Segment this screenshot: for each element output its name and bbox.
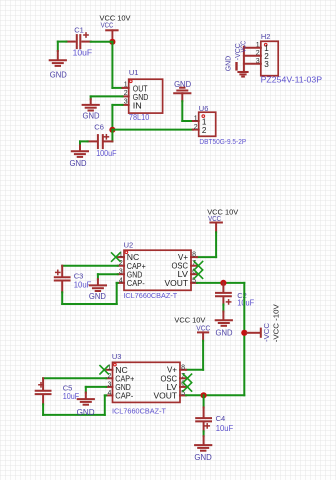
svg-text:U6: U6 xyxy=(199,104,209,113)
net label GND (H2 pin 3, rotated) xyxy=(224,55,233,71)
no-connect X U2 pin 6 xyxy=(194,270,202,278)
wire H2 vertical bus xyxy=(243,47,245,71)
svg-text:10uF: 10uF xyxy=(216,424,234,433)
svg-text:1: 1 xyxy=(124,82,128,89)
wire input node to U6 pin 2 xyxy=(112,129,192,131)
net label VCC (H2 pin 1, rotated) xyxy=(239,40,248,52)
IC U2 ICL7660CBAZ-T xyxy=(118,240,197,300)
svg-text:VOUT: VOUT xyxy=(154,392,178,401)
svg-text:-VCC -10V: -VCC -10V xyxy=(272,304,281,342)
svg-text:C3: C3 xyxy=(74,272,84,281)
ground GND (U3 pin 3) xyxy=(77,393,95,417)
svg-text:GND: GND xyxy=(77,408,95,417)
ground GND (C2) xyxy=(216,312,233,338)
ground GND (U2 pin 3) xyxy=(89,279,106,301)
svg-text:GND: GND xyxy=(216,328,233,337)
svg-text:DBT50G-9.5-2P: DBT50G-9.5-2P xyxy=(199,137,246,146)
svg-text:2: 2 xyxy=(124,90,128,97)
junction dot U3 VOUT / C4 xyxy=(201,392,207,398)
svg-text:2: 2 xyxy=(202,126,207,135)
svg-text:GND: GND xyxy=(127,270,143,279)
junction dot input node (C6/U6/U1.IN) xyxy=(109,127,115,133)
net label -VCC (H2 pin 2, rotated) xyxy=(233,43,242,61)
regulator U1 78L10 xyxy=(123,68,163,122)
svg-text:VCC: VCC xyxy=(101,23,114,30)
svg-text:GND: GND xyxy=(194,453,212,462)
wire U3 GND pin 3 xyxy=(86,387,106,393)
svg-text:C1: C1 xyxy=(74,25,84,34)
power flag VCC (above U3) xyxy=(174,316,210,341)
ground GND (C1 negative) xyxy=(50,51,67,80)
svg-text:VCC 10V: VCC 10V xyxy=(207,207,238,216)
wire U2 GND pin 3 xyxy=(98,274,118,279)
capacitor C2 10uF (vertical, polarized) xyxy=(216,283,254,308)
svg-text:C6: C6 xyxy=(94,122,104,131)
svg-text:GND: GND xyxy=(89,292,106,301)
no-connect X U3 pin 6 xyxy=(183,383,191,391)
no-connect X U3 pin 1 xyxy=(100,366,108,374)
svg-text:VCC 10V: VCC 10V xyxy=(174,316,205,325)
wire U3 CAP+ to C5 xyxy=(43,377,106,379)
svg-text:3: 3 xyxy=(264,60,269,69)
svg-text:78L10: 78L10 xyxy=(129,113,150,122)
svg-text:GND: GND xyxy=(115,383,131,392)
svg-text:LV: LV xyxy=(178,270,189,279)
wire VCC to U2 pin 8 xyxy=(197,232,216,257)
wire C6 left to GND corner xyxy=(80,141,88,145)
junction dot VCC/C1 node xyxy=(109,39,115,45)
wire C5 bottom to U3 CAP- xyxy=(43,395,106,415)
wire U2 VOUT to -VCC rail xyxy=(197,282,244,284)
svg-text:CAP-: CAP- xyxy=(115,392,133,401)
junction dot -VCC flag xyxy=(241,330,247,336)
wire VCC to U3 pin 8 xyxy=(186,341,203,370)
svg-text:PZ254V-11-03P: PZ254V-11-03P xyxy=(261,75,323,84)
svg-text:2: 2 xyxy=(194,124,198,131)
wire U3 VOUT to -VCC rail xyxy=(186,394,244,396)
svg-text:8: 8 xyxy=(192,252,196,259)
wire H2 pin 3 xyxy=(244,63,261,65)
svg-text:GND: GND xyxy=(50,71,67,80)
ground GND flipped (above U6 pin 1) xyxy=(174,80,191,101)
wire VCC junction to C1 right xyxy=(91,41,113,43)
svg-text:CAP-: CAP- xyxy=(127,279,145,288)
connector U6 DBT50G-9.5-2P xyxy=(193,104,246,146)
capacitor C4 10uF (vertical, polarized) xyxy=(196,395,233,433)
power flag -VCC (net -VCC -10V, rotated) xyxy=(247,304,281,342)
svg-text:GND: GND xyxy=(224,55,233,71)
svg-text:VCC 10V: VCC 10V xyxy=(100,14,131,23)
wire U2 CAP+ to C3 xyxy=(62,265,118,267)
svg-text:LV: LV xyxy=(167,383,178,392)
svg-text:10uF: 10uF xyxy=(73,49,93,58)
svg-text:VOUT: VOUT xyxy=(165,279,189,288)
svg-text:U2: U2 xyxy=(124,240,134,249)
wire C2 to ground xyxy=(222,305,224,312)
svg-text:-VCC: -VCC xyxy=(264,323,271,342)
no-connect X U2 pin 1 xyxy=(112,253,120,261)
svg-text:IN: IN xyxy=(133,102,142,111)
wire VCC rail down to U1 OUT xyxy=(112,42,122,88)
svg-text:U1: U1 xyxy=(129,68,139,77)
wire C4 to ground xyxy=(203,431,205,436)
svg-text:U3: U3 xyxy=(112,352,122,361)
svg-text:H2: H2 xyxy=(261,32,271,41)
no-connect X U2 pin 7 xyxy=(194,262,202,270)
ground GND (C6 negative) xyxy=(70,145,89,168)
svg-text:3: 3 xyxy=(124,99,128,106)
ground (H2, rotated marks) xyxy=(237,63,248,76)
wire GND down to U6 pin 1 xyxy=(182,101,193,121)
svg-text:ICL7660CBAZ-T: ICL7660CBAZ-T xyxy=(123,291,177,300)
capacitor C1 10uF (horizontal, polarized) xyxy=(66,25,92,57)
svg-text:3: 3 xyxy=(119,269,123,276)
svg-text:1: 1 xyxy=(194,116,198,123)
svg-text:100uF: 100uF xyxy=(96,149,116,158)
power flag VCC (net VCC 10V) top-left xyxy=(100,14,131,39)
svg-text:ICL7660CBAZ-T: ICL7660CBAZ-T xyxy=(112,406,166,415)
capacitor C6 100uF (horizontal, polarized) xyxy=(88,122,117,158)
svg-text:GND: GND xyxy=(83,112,100,121)
svg-text:3: 3 xyxy=(107,381,111,388)
svg-text:4: 4 xyxy=(119,277,123,284)
ground GND (U1 pin 2) xyxy=(83,99,100,121)
svg-text:C4: C4 xyxy=(216,414,226,423)
wire H2 pin 1 xyxy=(244,47,261,49)
capacitor C3 10uF (vertical, polarized) xyxy=(55,266,92,293)
wire U1 IN pin 3 down to input node xyxy=(112,105,122,130)
junction dot U2 VOUT / C2 xyxy=(220,280,226,286)
power flag VCC (above U2) xyxy=(207,207,238,232)
IC U3 ICL7660CBAZ-T xyxy=(106,352,185,415)
no-connect X U3 pin 7 xyxy=(183,374,191,382)
svg-text:10uF: 10uF xyxy=(237,298,254,307)
svg-text:8: 8 xyxy=(181,364,185,371)
capacitor C5 10uF (vertical, polarized) xyxy=(36,378,80,404)
svg-text:-VCC: -VCC xyxy=(233,43,242,61)
wire input node down to C6 xyxy=(111,130,113,142)
wire C1 left to GND corner xyxy=(58,42,67,51)
wire H2 pin 2 xyxy=(244,55,261,57)
ground GND (C4) xyxy=(194,436,212,462)
svg-text:4: 4 xyxy=(107,390,111,397)
connector H2 PZ254V-11-03P xyxy=(256,32,322,84)
svg-text:GND: GND xyxy=(70,159,87,168)
wire U1 GND pin 2 to ground xyxy=(91,96,123,99)
wire -VCC rail vertical xyxy=(243,283,245,395)
wire C3 bottom to U2 CAP- xyxy=(62,283,118,304)
